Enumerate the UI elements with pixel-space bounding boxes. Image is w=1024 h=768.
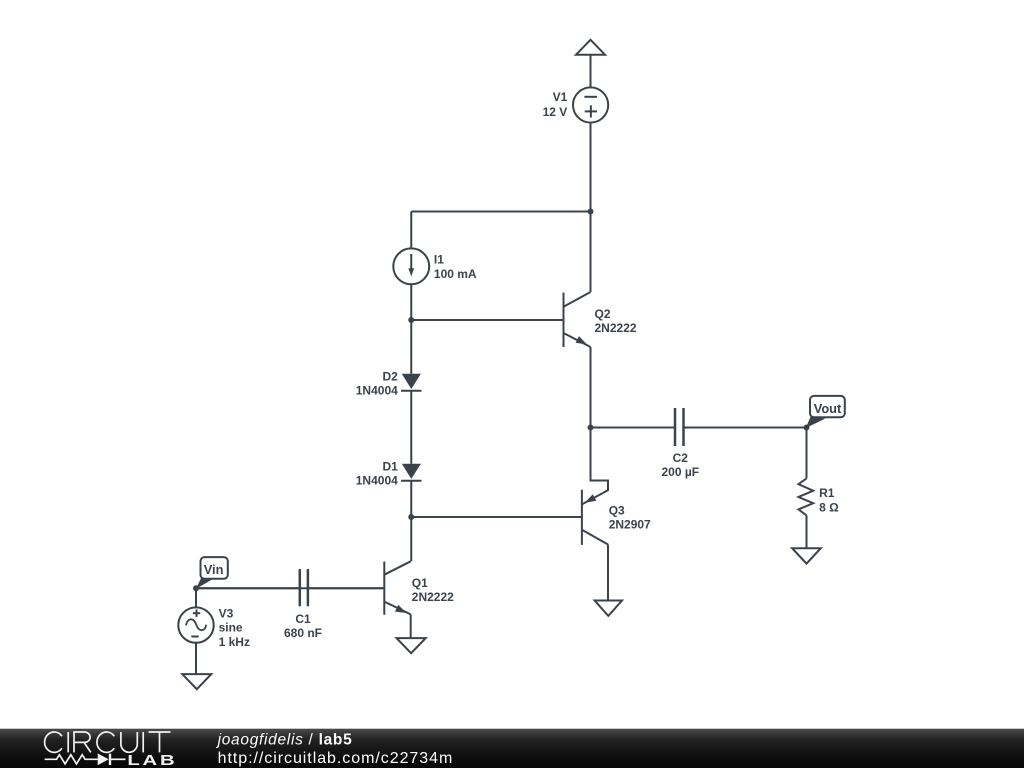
svg-text:1N4004: 1N4004 xyxy=(356,383,398,397)
svg-text:Vin: Vin xyxy=(204,562,224,577)
svg-text:D1: D1 xyxy=(382,459,398,473)
svg-text:http://circuitlab.com/c22734m: http://circuitlab.com/c22734m xyxy=(218,750,454,767)
svg-text:Q1: Q1 xyxy=(412,576,428,590)
svg-text:Q3: Q3 xyxy=(609,503,625,517)
svg-text:V3: V3 xyxy=(219,606,234,620)
svg-text:100 mA: 100 mA xyxy=(434,267,477,281)
svg-text:200 µF: 200 µF xyxy=(661,465,699,479)
svg-text:D2: D2 xyxy=(382,370,398,384)
svg-text:R1: R1 xyxy=(819,486,835,500)
svg-text:sine: sine xyxy=(219,621,243,635)
svg-text:LAB: LAB xyxy=(127,752,177,768)
svg-text:1 kHz: 1 kHz xyxy=(219,635,250,649)
svg-text:C2: C2 xyxy=(673,451,689,465)
svg-text:joaogfidelis / lab5: joaogfidelis / lab5 xyxy=(216,731,353,748)
svg-text:I1: I1 xyxy=(434,253,444,267)
svg-text:2N2907: 2N2907 xyxy=(609,517,651,531)
svg-text:2N2222: 2N2222 xyxy=(595,321,637,335)
svg-text:680 nF: 680 nF xyxy=(284,626,322,640)
svg-text:C1: C1 xyxy=(295,612,311,626)
svg-text:Q2: Q2 xyxy=(595,307,611,321)
svg-text:V1: V1 xyxy=(553,90,568,104)
svg-text:2N2222: 2N2222 xyxy=(412,590,454,604)
svg-text:Vout: Vout xyxy=(814,401,842,416)
svg-text:12 V: 12 V xyxy=(543,105,568,119)
svg-text:1N4004: 1N4004 xyxy=(356,473,398,487)
svg-text:8 Ω: 8 Ω xyxy=(819,500,839,514)
